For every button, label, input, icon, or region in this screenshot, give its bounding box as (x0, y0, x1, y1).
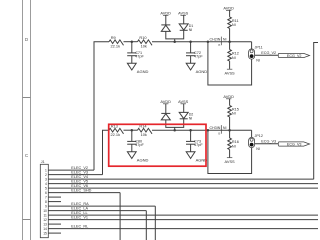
resistor R14 (138, 128, 153, 133)
svg-text:AVSS: AVSS (225, 159, 235, 164)
jumper JP12 (249, 137, 255, 147)
svg-text:ELEC_V1: ELEC_V1 (71, 216, 88, 220)
svg-text:8: 8 (45, 200, 47, 204)
capacitor C72 (190, 42, 192, 53)
svg-text:4: 4 (45, 182, 47, 186)
node port ECG_V2 (278, 53, 309, 57)
svg-text:CH3IN: CH3IN (210, 126, 221, 130)
sheet zone tick (23, 219, 31, 221)
ground AGND (186, 63, 195, 70)
wire ELEC_RA drop (154, 206, 156, 240)
svg-text:ECG_V2: ECG_V2 (287, 54, 302, 58)
svg-text:AVSS: AVSS (178, 10, 188, 15)
resistor R9 (109, 40, 124, 45)
svg-text:ELEC_V5: ELEC_V5 (71, 180, 88, 184)
resistor R11 (229, 10, 231, 17)
svg-text:R10: R10 (139, 35, 147, 40)
node cap2 junction (189, 40, 192, 43)
wire pin 9 ELEC_RA (48, 205, 155, 207)
wire pin 11 ELEC_LL (48, 214, 318, 216)
node cap1 junction (131, 129, 134, 132)
svg-text:ELEC_SHD: ELEC_SHD (71, 189, 91, 193)
node cap2 junction (189, 129, 192, 132)
diode clamp to AVDD (161, 112, 170, 114)
wire pin 1 ELEC_V2 (48, 169, 94, 171)
svg-text:AVDD: AVDD (160, 99, 171, 104)
svg-text:NI: NI (189, 28, 193, 32)
svg-text:15: 15 (43, 231, 47, 235)
svg-text:NI: NI (256, 147, 260, 151)
wire ECG_V2 (255, 54, 279, 56)
wire (124, 41, 138, 43)
capacitor C73 (190, 130, 192, 141)
svg-text:NI: NI (256, 59, 260, 63)
wire main net (152, 41, 252, 43)
wire ELEC_V4 route off-sheet (314, 43, 318, 180)
svg-text:1: 1 (45, 168, 47, 172)
svg-text:JP12: JP12 (255, 134, 263, 138)
sheet zone tick (23, 97, 31, 99)
capacitor C80 (131, 130, 133, 141)
svg-text:AVSS: AVSS (225, 71, 235, 76)
svg-text:NI: NI (223, 37, 227, 41)
wire pin 8 (48, 201, 61, 203)
svg-text:AVSS: AVSS (178, 99, 188, 104)
wire ELEC_LA drop (145, 211, 147, 240)
svg-text:10k: 10k (141, 43, 147, 48)
wire pin 5 ELEC_V6 (48, 187, 318, 189)
svg-text:R9: R9 (111, 35, 116, 40)
wire pin 14 ELEC_RL (48, 228, 318, 230)
ground AGND (127, 152, 136, 159)
svg-text:47pF: 47pF (135, 54, 144, 58)
svg-text:AGND: AGND (137, 158, 149, 163)
svg-text:9: 9 (45, 204, 47, 208)
svg-text:AVDD: AVDD (223, 94, 234, 99)
svg-text:NI: NI (189, 117, 193, 121)
wire pin 3 ELEC_V4 (48, 178, 313, 180)
svg-text:ELEC_V2: ELEC_V2 (71, 166, 88, 170)
node divider junction (228, 129, 231, 132)
node diode rail junction (173, 129, 176, 132)
svg-text:ECG_V2: ECG_V2 (261, 51, 276, 55)
svg-text:ELEC_V6: ELEC_V6 (71, 184, 88, 188)
svg-text:47pF: 47pF (135, 143, 144, 147)
svg-text:ECG_V3: ECG_V3 (261, 139, 276, 143)
svg-text:NI: NI (223, 126, 227, 130)
node diode rail junction (173, 40, 176, 43)
svg-text:CH2IN: CH2IN (210, 37, 221, 41)
svg-text:J1: J1 (41, 160, 45, 164)
svg-text:ELEC_RA: ELEC_RA (71, 202, 89, 206)
resistor R15 (229, 99, 231, 106)
wire diode rail (166, 30, 184, 39)
svg-text:AVDD: AVDD (160, 10, 171, 15)
node port ECG_V3 (278, 142, 309, 146)
svg-text:B: B (218, 43, 220, 47)
wire pin 15 (48, 232, 61, 234)
svg-text:6: 6 (45, 191, 47, 195)
svg-text:10k: 10k (141, 132, 147, 137)
wire pin 2 ELEC_V3 (48, 174, 102, 176)
svg-text:NI: NI (232, 56, 236, 60)
wire (124, 129, 138, 131)
wire main net (152, 129, 252, 131)
diode clamp to AVDD (161, 24, 170, 26)
highlight box (red annotation) (109, 124, 206, 166)
svg-text:11: 11 (43, 213, 47, 217)
node box junction (207, 129, 210, 132)
resistor R13 (109, 128, 124, 133)
sheet border inner line (22, 0, 24, 240)
diode D1 (179, 24, 188, 30)
wire pin 4 ELEC_V5 (48, 183, 318, 185)
svg-text:B: B (218, 131, 220, 135)
svg-text:47pF: 47pF (194, 143, 203, 147)
node divider junction (228, 40, 231, 43)
svg-text:12: 12 (43, 218, 47, 222)
ground AGND (186, 152, 195, 159)
svg-text:ECG_V3: ECG_V3 (287, 142, 302, 146)
svg-text:5: 5 (45, 186, 47, 190)
wire ELEC_SHD drop (119, 193, 121, 240)
resistor R10 (138, 40, 153, 45)
wire pin 12 ELEC_V1 (48, 219, 318, 221)
sheet border outer line (30, 0, 32, 240)
resistor R16 (229, 130, 231, 138)
wire pin 10 ELEC_LA (48, 210, 146, 212)
connector J1 (40, 164, 48, 237)
svg-text:ELEC_V4: ELEC_V4 (71, 175, 88, 179)
wire ELEC_V2 riser to stage-1 input (94, 42, 109, 170)
wire jumper loop (208, 42, 252, 85)
svg-text:7: 7 (45, 195, 47, 199)
power AVSS (227, 157, 232, 159)
jumper JP11 (249, 49, 255, 59)
capacitor C71 (131, 42, 133, 53)
svg-text:22.1k: 22.1k (111, 132, 121, 137)
wire ECG_V3 (255, 143, 279, 145)
svg-text:NI: NI (232, 23, 236, 27)
svg-text:10: 10 (43, 209, 47, 213)
wire jumper loop (208, 130, 252, 173)
node box junction (207, 40, 210, 43)
svg-text:ELEC_V3: ELEC_V3 (71, 171, 88, 175)
wire pin 7 (48, 196, 61, 198)
svg-text:47pF: 47pF (194, 54, 203, 58)
svg-text:ELEC_RL: ELEC_RL (71, 225, 88, 229)
svg-text:JP11: JP11 (255, 46, 263, 50)
svg-text:ELEC_LL: ELEC_LL (71, 211, 87, 215)
svg-text:ELEC_LA: ELEC_LA (71, 207, 88, 211)
ground AGND (127, 63, 136, 70)
diode D2 (179, 112, 188, 118)
svg-text:14: 14 (43, 227, 47, 231)
svg-text:NI: NI (232, 112, 236, 116)
svg-text:13: 13 (43, 222, 47, 226)
svg-text:2: 2 (45, 173, 47, 177)
wire pin 13 (48, 223, 61, 225)
svg-text:AVDD: AVDD (223, 5, 234, 10)
wire ELEC_V3 riser to stage-2 input (103, 130, 110, 174)
svg-text:3: 3 (45, 177, 47, 181)
resistor R12 (229, 42, 231, 50)
node cap1 junction (131, 40, 134, 43)
svg-text:AGND: AGND (196, 69, 208, 74)
power AVSS (227, 68, 232, 70)
svg-text:NI: NI (232, 144, 236, 148)
svg-text:AGND: AGND (137, 69, 149, 74)
wire diode rail (166, 119, 184, 128)
svg-text:22.1k: 22.1k (111, 43, 121, 48)
wire pin 6 ELEC_SHD (48, 192, 120, 194)
